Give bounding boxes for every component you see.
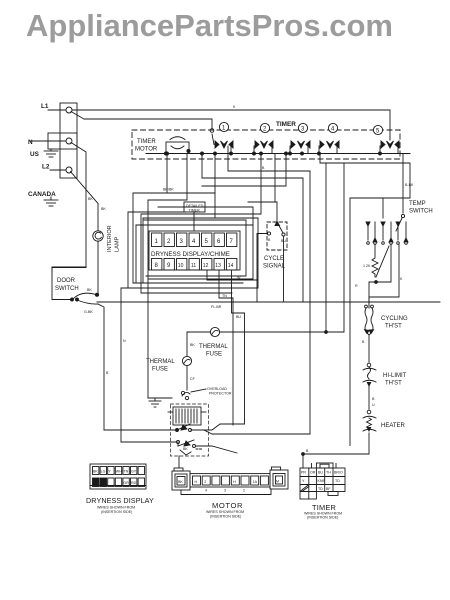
svg-text:7: 7 (230, 239, 234, 245)
dryness cell 5 (202, 233, 212, 247)
svg-text:THERMAL: THERMAL (199, 344, 228, 350)
junction dots on bus (166, 152, 304, 155)
svg-text:B: B (306, 449, 309, 453)
timer cam 2 (260, 123, 269, 132)
wire cycle left (257, 234, 268, 303)
svg-text:TIMER: TIMER (276, 121, 296, 128)
dryness display connector label (86, 496, 154, 514)
svg-text:Y: Y (108, 470, 111, 474)
wire cell13 drop (219, 270, 233, 425)
wire heater to timer plug (302, 433, 369, 468)
svg-text:HEATER: HEATER (381, 423, 406, 429)
dryness cell 9 (164, 259, 174, 271)
terminal L2 (42, 164, 72, 174)
detailed timer label (184, 202, 205, 230)
svg-text:BK: BK (183, 447, 188, 451)
svg-text:L2: L2 (42, 164, 50, 171)
timer cam 3 (298, 123, 307, 132)
svg-text:CF: CF (190, 377, 196, 381)
terminal L1 (41, 103, 72, 113)
switch blade N (71, 143, 86, 153)
svg-text:DRYNESS DISPLAY: DRYNESS DISPLAY (86, 496, 154, 505)
svg-text:TN: TN (123, 470, 128, 474)
svg-text:3: 3 (180, 239, 184, 245)
terminal block (60, 103, 77, 178)
svg-text:DRYNESS DISPLAY/CHIME: DRYNESS DISPLAY/CHIME (151, 251, 230, 258)
nest h207 (148, 207, 253, 279)
svg-text:BU: BU (101, 481, 106, 485)
heater element (363, 403, 406, 431)
svg-text:VT: VT (93, 481, 98, 485)
svg-text:(INSERTION SIDE): (INSERTION SIDE) (210, 515, 241, 519)
wire cam drop 286 (202, 154, 286, 187)
wire cell14 drop (232, 270, 245, 424)
svg-text:1: 1 (155, 239, 159, 245)
svg-text:BK: BK (190, 343, 195, 347)
motor winding box (168, 407, 206, 425)
svg-text:Y: Y (302, 479, 305, 483)
hi-limit thermostat (363, 363, 407, 409)
svg-text:12: 12 (203, 263, 209, 269)
svg-text:H: H (233, 480, 236, 484)
svg-text:9: 9 (167, 263, 171, 269)
wire fuse to overload (187, 366, 196, 390)
svg-text:13: 13 (215, 263, 221, 269)
svg-text:BU: BU (236, 315, 241, 319)
timer cam 5 (373, 125, 382, 134)
timer motor M1 (135, 137, 190, 155)
contacts bus wire (146, 153, 410, 155)
motor connector pigtail marks (180, 447, 203, 455)
svg-text:BR/O: BR/O (334, 471, 343, 475)
svg-text:BK: BK (101, 207, 106, 211)
svg-text:BK: BK (178, 480, 183, 484)
svg-text:(INSERTION SIDE): (INSERTION SIDE) (101, 510, 132, 514)
svg-text:B: B (372, 397, 375, 401)
svg-text:G-BK: G-BK (84, 310, 93, 314)
svg-text:THERMAL: THERMAL (146, 359, 175, 365)
svg-text:SIGNAL: SIGNAL (263, 264, 286, 270)
dryness display chime label (151, 251, 230, 258)
svg-text:TEMP: TEMP (409, 201, 426, 207)
svg-text:PR: PR (301, 471, 306, 475)
temp switch label (409, 201, 433, 215)
svg-text:L1: L1 (41, 103, 49, 110)
svg-text:(INSERTION SIDE): (INSERTION SIDE) (307, 516, 338, 520)
svg-text:SWITCH: SWITCH (409, 209, 433, 215)
resistor R1 (363, 245, 378, 277)
motor connector left cap (172, 456, 190, 490)
svg-text:2: 2 (243, 489, 245, 493)
wire temp out (369, 245, 403, 308)
svg-text:N: N (28, 139, 33, 146)
interior lamp label (107, 225, 121, 252)
dryness cell 1 (152, 233, 162, 247)
svg-text:R: R (355, 284, 358, 288)
terminal N (28, 133, 77, 149)
timer connector label (304, 503, 342, 520)
svg-text:10: 10 (178, 263, 184, 269)
wire nest h193 (133, 188, 215, 284)
svg-text:MOTOR: MOTOR (212, 501, 243, 510)
dryness cell 11 (189, 259, 199, 271)
wire cam drop 261 (141, 154, 261, 289)
svg-text:4: 4 (205, 489, 207, 493)
svg-text:INTERIOR: INTERIOR (107, 225, 113, 252)
cam switch contact 4 (318, 141, 340, 155)
motor assembly boundary (171, 404, 209, 456)
wire temp left branch (350, 198, 410, 446)
svg-text:CYCLE: CYCLE (264, 256, 284, 262)
wire L1 top bus (72, 105, 390, 138)
svg-text:KNE: KNE (318, 479, 326, 483)
svg-text:N: N (123, 339, 126, 343)
wire resistor diag (375, 245, 391, 283)
cam switch contact 3 (289, 141, 311, 155)
svg-text:WIRES SHOWN FROM: WIRES SHOWN FROM (206, 510, 244, 514)
dryness display connector (90, 464, 146, 489)
svg-text:FUSE: FUSE (152, 367, 168, 373)
wire h163 drop col326 (325, 163, 327, 332)
svg-text:WH: WH (116, 470, 122, 474)
nest top h220 (144, 220, 246, 276)
dryness cell 2 (164, 233, 174, 247)
svg-text:BK: BK (88, 197, 93, 201)
wire cell12 drop (207, 270, 258, 280)
svg-text:BK: BK (93, 470, 98, 474)
wire L1 second feed (84, 119, 214, 132)
wire cam drop 275 (248, 154, 277, 223)
svg-text:TD: TD (318, 487, 323, 491)
svg-text:B: B (362, 340, 365, 344)
svg-text:GY: GY (131, 470, 137, 474)
svg-text:1A: 1A (253, 480, 258, 484)
svg-text:LG: LG (101, 470, 106, 474)
ground US (30, 149, 58, 158)
svg-text:FL-BR: FL-BR (211, 305, 222, 309)
wire cam drop 215 (136, 154, 258, 284)
svg-text:TH'ST: TH'ST (385, 381, 402, 387)
nest bottom exits (128, 218, 258, 293)
motor centrifugal switch 2 (121, 339, 237, 453)
ground motor (148, 398, 172, 407)
wire cam drop 202 (202, 154, 303, 303)
cycling thermostat (362, 297, 408, 362)
door switch blade 1 (71, 288, 99, 301)
svg-text:H: H (195, 480, 198, 484)
svg-text:3: 3 (224, 489, 226, 493)
switch blade L1 (71, 112, 84, 120)
svg-text:OR: OR (310, 471, 316, 475)
cycle signal box (263, 222, 287, 270)
ground CANADA (28, 191, 58, 206)
wire cam drop 228 (228, 146, 310, 434)
svg-text:2: 2 (167, 239, 171, 245)
svg-text:CYCLING: CYCLING (381, 316, 408, 322)
dryness cell 10 (177, 259, 187, 271)
wire temp feed (403, 154, 414, 214)
timer cam 4 (328, 123, 337, 132)
door switch blade 2 (76, 298, 99, 314)
temp switch assembly (366, 198, 408, 244)
cam switch contact 5 (379, 138, 400, 155)
wire door to motor (98, 304, 109, 430)
svg-text:BK: BK (87, 288, 92, 292)
switch blade L2 (71, 172, 99, 204)
timer cam 1 (219, 122, 228, 131)
wire cam1 drop (166, 154, 168, 194)
motor centrifugal switch 1 (104, 424, 310, 434)
cycle signal switch (267, 222, 286, 244)
svg-text:K: K (400, 277, 403, 281)
svg-text:US: US (30, 151, 40, 158)
svg-text:2: 2 (204, 480, 206, 484)
svg-text:B: B (268, 238, 271, 242)
dryness cell 13 (214, 259, 224, 271)
dryness cell 12 (202, 259, 212, 271)
thermal fuse F1 (199, 327, 228, 357)
svg-text:CANADA: CANADA (28, 191, 56, 198)
motor connector label (206, 501, 244, 519)
svg-text:B: B (262, 166, 265, 170)
svg-text:BR/BK: BR/BK (163, 188, 174, 192)
svg-text:TH'ST: TH'ST (385, 324, 402, 330)
svg-text:FUSE: FUSE (206, 352, 222, 358)
svg-text:14: 14 (228, 263, 234, 269)
thermal fuse F2 (146, 356, 192, 372)
motor connector right cap (270, 467, 288, 489)
cam switch contact 1 (212, 134, 233, 155)
wire cycle right (283, 236, 285, 302)
svg-text:TN: TN (222, 294, 227, 298)
svg-text:OR: OR (123, 481, 129, 485)
svg-text:8: 8 (155, 263, 159, 269)
svg-text:5: 5 (205, 239, 209, 245)
timer connector grid (300, 463, 345, 499)
svg-text:TIMER: TIMER (137, 139, 156, 145)
timer dashed box (132, 121, 400, 159)
svg-text:6: 6 (217, 239, 221, 245)
wire nest right (325, 163, 344, 333)
wire cam drop 187 (148, 154, 187, 399)
svg-text:M: M (276, 480, 279, 484)
overload protector (181, 387, 232, 400)
svg-text:HI-LIMIT: HI-LIMIT (383, 373, 407, 379)
wire cam drop 320 (320, 154, 410, 199)
wire resistor down (355, 282, 376, 297)
svg-text:LAMP: LAMP (115, 236, 121, 252)
svg-text:B-BK: B-BK (405, 183, 414, 187)
wire L2 drop (98, 204, 106, 231)
svg-text:TD: TD (335, 479, 340, 483)
interior lamp (93, 231, 103, 241)
svg-text:11: 11 (191, 263, 196, 269)
svg-text:4: 4 (192, 239, 196, 245)
svg-text:B: B (106, 371, 109, 375)
svg-text:MOTOR: MOTOR (135, 147, 158, 153)
svg-text:OVERLOAD: OVERLOAD (207, 387, 227, 391)
svg-text:W: W (237, 276, 241, 280)
svg-text:K: K (233, 105, 236, 109)
svg-text:PROTECTOR: PROTECTOR (209, 392, 232, 396)
svg-text:1.2K: 1.2K (363, 264, 371, 268)
dryness cell 7 (227, 233, 237, 247)
motor connector strip (190, 474, 270, 493)
wire lamp to door (97, 241, 99, 294)
motor connector harness loop (181, 489, 271, 495)
dryness cell 3 (177, 233, 187, 247)
svg-text:WIRES SHOWN FROM: WIRES SHOWN FROM (97, 506, 135, 510)
svg-text:BU: BU (318, 471, 323, 475)
svg-text:RD: RD (131, 481, 137, 485)
cam switch contact 2 (253, 141, 274, 155)
nest outer rect (121, 212, 186, 442)
dryness cell 4 (189, 233, 199, 247)
door switch frame (52, 268, 86, 300)
svg-text:SWITCH: SWITCH (55, 286, 79, 292)
dryness cell 6 (214, 233, 224, 247)
wire fuse bus (187, 332, 326, 356)
svg-text:U: U (372, 403, 375, 407)
dryness cell 14 (227, 259, 237, 271)
main lower bus wire (97, 302, 440, 309)
svg-text:DOOR: DOOR (57, 278, 76, 284)
svg-text:TH: TH (326, 471, 331, 475)
svg-text:BF: BF (326, 487, 331, 491)
dryness cell 8 (152, 259, 162, 271)
wire N drop (52, 153, 93, 272)
dryness display table (149, 231, 240, 270)
